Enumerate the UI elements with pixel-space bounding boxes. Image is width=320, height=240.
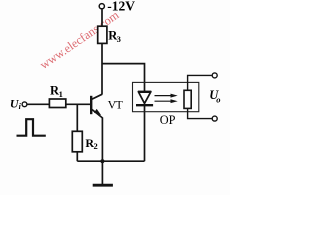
LED triangle (139, 92, 151, 103)
photoresistor body (optocoupler output) (184, 90, 191, 108)
wire input to R1 (27, 103, 49, 105)
input pulse waveform (17, 119, 46, 136)
resistor R2 (72, 131, 82, 152)
transistor VT collector lead (91, 94, 102, 99)
resistor R3 (98, 26, 107, 43)
LED cathode wire down to rail (144, 106, 146, 161)
wire emitter down (101, 117, 103, 161)
wire R2 to rail (76, 152, 78, 161)
resistor R1 (49, 99, 65, 108)
wire photoresistor top to output (188, 75, 213, 90)
wire node down to R2 (76, 104, 78, 131)
svg-text:2: 2 (94, 141, 98, 151)
junction dot (emitter/ground rail node) (100, 159, 104, 163)
input terminal circle (22, 102, 27, 107)
svg-text:o: o (216, 94, 220, 104)
svg-text:VT: VT (108, 98, 124, 112)
wire photoresistor bottom to output (188, 108, 213, 118)
emitter arrowhead (94, 109, 101, 115)
light arrow 1 (155, 95, 173, 97)
ground bar (93, 184, 113, 187)
ground stem (101, 161, 103, 184)
transistor VT base bar (90, 96, 92, 114)
output terminal bottom (212, 116, 217, 121)
light arrow 2 (155, 100, 173, 102)
power terminal circle (-12V supply) (99, 4, 104, 9)
LED anode bar (138, 90, 151, 92)
optocoupler box OP (133, 82, 199, 111)
wire R1 to base (66, 103, 90, 105)
svg-text:1: 1 (59, 89, 63, 99)
ground rail wire (77, 160, 144, 162)
wire R3 to collector node (101, 43, 103, 94)
output terminal top (212, 73, 217, 78)
svg-text:OP: OP (160, 113, 176, 127)
LED cathode bar (136, 104, 153, 106)
watermark www.elecfans.com (37, 8, 122, 72)
wire collector node to LED (horizontal + vertical) (102, 64, 145, 91)
svg-text:3: 3 (117, 34, 121, 44)
transistor VT emitter lead (92, 110, 102, 118)
svg-text:-12V: -12V (107, 0, 135, 14)
wire supply to R3 (101, 9, 103, 26)
